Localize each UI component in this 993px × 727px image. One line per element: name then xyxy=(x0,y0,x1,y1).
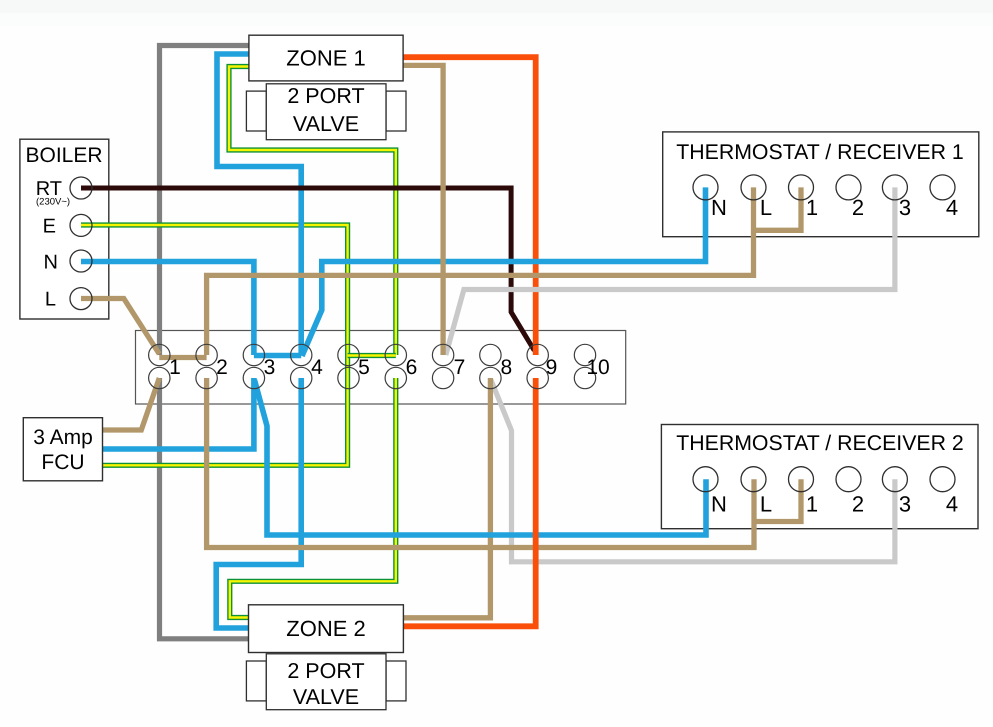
svg-text:8: 8 xyxy=(501,356,513,379)
svg-text:3 Amp: 3 Amp xyxy=(33,426,93,449)
wire: tan boiler L to terminal 1 xyxy=(81,299,159,355)
svg-text:2 PORT: 2 PORT xyxy=(287,84,364,108)
wire: green/yellow boiler E to FCU through terminal 5 xyxy=(81,225,348,465)
wire: orange terminal 9 to ZONE2 right edge (lower segment) xyxy=(403,378,535,626)
svg-text:THERMOSTAT / RECEIVER 1: THERMOSTAT / RECEIVER 1 xyxy=(676,140,964,164)
svg-text:6: 6 xyxy=(406,356,418,379)
ZONE 2 box xyxy=(249,605,404,653)
svg-text:1: 1 xyxy=(806,195,818,220)
wire: blue terminal 3 to receiver2 N xyxy=(255,380,707,535)
svg-text:9: 9 xyxy=(546,356,558,379)
wire: light gray strip terminal 8 to receiver2 terminal-3 xyxy=(491,380,895,562)
svg-text:E: E xyxy=(43,216,56,238)
svg-text:L: L xyxy=(760,195,772,220)
wire: tan link terminal1-terminal2 xyxy=(159,355,206,360)
boiler box xyxy=(20,139,109,319)
terminal strip box xyxy=(136,331,626,405)
3 Amp FCU box xyxy=(23,418,102,481)
wire: blue link terminal3-terminal4 xyxy=(254,353,301,359)
svg-text:2 PORT: 2 PORT xyxy=(287,659,364,683)
wire: light gray receiver1 terminal-3 to strip terminal 7 xyxy=(446,187,895,355)
wire: gray ZONE1 left edge down through terminal 1 to ZONE2 left edge xyxy=(160,46,249,639)
receiver 2 circles xyxy=(693,467,955,492)
wire: tan terminal 8 down to ZONE2 right edge xyxy=(403,378,490,618)
svg-text:3: 3 xyxy=(264,356,276,379)
ZONE 1 valve left tab xyxy=(246,91,266,131)
svg-text:4: 4 xyxy=(311,356,323,379)
ZONE 1 box xyxy=(249,35,403,81)
terminal strip circles xyxy=(149,344,596,388)
svg-text:N: N xyxy=(711,492,727,517)
wire: blue boiler N to terminal 3 xyxy=(81,262,254,356)
wire: tan terminal 1 to FCU xyxy=(103,378,160,430)
wire: orange ZONE1 right edge to terminal 9 (upper segment) xyxy=(403,57,536,355)
wire: blue terminal 3 to FCU xyxy=(103,378,254,449)
svg-text:L: L xyxy=(45,289,56,311)
ZONE 2 valve right tab xyxy=(386,661,406,701)
svg-text:BOILER: BOILER xyxy=(25,144,102,167)
svg-text:2: 2 xyxy=(852,492,864,517)
svg-text:N: N xyxy=(44,252,58,274)
thermostat / receiver 1 box xyxy=(663,132,979,237)
svg-text:N: N xyxy=(711,195,727,220)
svg-text:FCU: FCU xyxy=(41,451,84,474)
ZONE 2 2-port valve box xyxy=(266,654,386,710)
wire: tan L distribution corner to receiver1 L and down into terminal 2 xyxy=(207,187,754,355)
wire: tan receiver1 L-1 link xyxy=(754,187,802,230)
svg-text:VALVE: VALVE xyxy=(293,685,359,709)
svg-text:1: 1 xyxy=(169,356,181,379)
svg-text:3: 3 xyxy=(899,492,911,517)
wire: dark maroon boiler RT to terminal 9 xyxy=(81,188,534,351)
svg-text:VALVE: VALVE xyxy=(293,112,359,136)
svg-text:1: 1 xyxy=(806,492,818,517)
ZONE 1 2-port valve box xyxy=(266,84,386,140)
ZONE 1 valve right tab xyxy=(386,91,406,131)
wire: tan terminal 2 to receiver2 L xyxy=(207,378,754,548)
svg-text:(230V~): (230V~) xyxy=(36,197,70,208)
wire: blue ZONE1 left edge through terminal 4 to ZONE2 left edge xyxy=(216,54,301,628)
svg-text:2: 2 xyxy=(216,356,228,379)
wire: green/yellow terminal 6 to ZONE2 left edge xyxy=(230,378,396,618)
svg-text:5: 5 xyxy=(358,356,370,379)
wire: green/yellow ZONE1 left edge to terminal 6 xyxy=(229,67,396,356)
thermostat / receiver 2 box xyxy=(661,425,978,529)
wire: tan receiver2 L-1 link xyxy=(754,479,801,521)
wire: green/yellow link terminal5-terminal6 xyxy=(348,353,396,358)
svg-text:10: 10 xyxy=(586,356,609,379)
wire: tan ZONE1 right edge to terminal 7 xyxy=(403,65,443,355)
terminal strip numbers xyxy=(169,356,610,379)
svg-text:4: 4 xyxy=(946,492,958,517)
svg-text:ZONE 2: ZONE 2 xyxy=(286,616,365,641)
svg-text:ZONE 1: ZONE 1 xyxy=(286,46,365,71)
svg-text:THERMOSTAT / RECEIVER 2: THERMOSTAT / RECEIVER 2 xyxy=(676,431,964,455)
svg-text:L: L xyxy=(760,492,772,517)
wire: blue terminal 4 to receiver1 N xyxy=(302,187,706,356)
receiver 1 circles xyxy=(693,175,955,200)
ZONE 2 valve left tab xyxy=(246,661,266,701)
boiler terminal circles xyxy=(70,177,92,310)
svg-text:7: 7 xyxy=(454,356,466,379)
